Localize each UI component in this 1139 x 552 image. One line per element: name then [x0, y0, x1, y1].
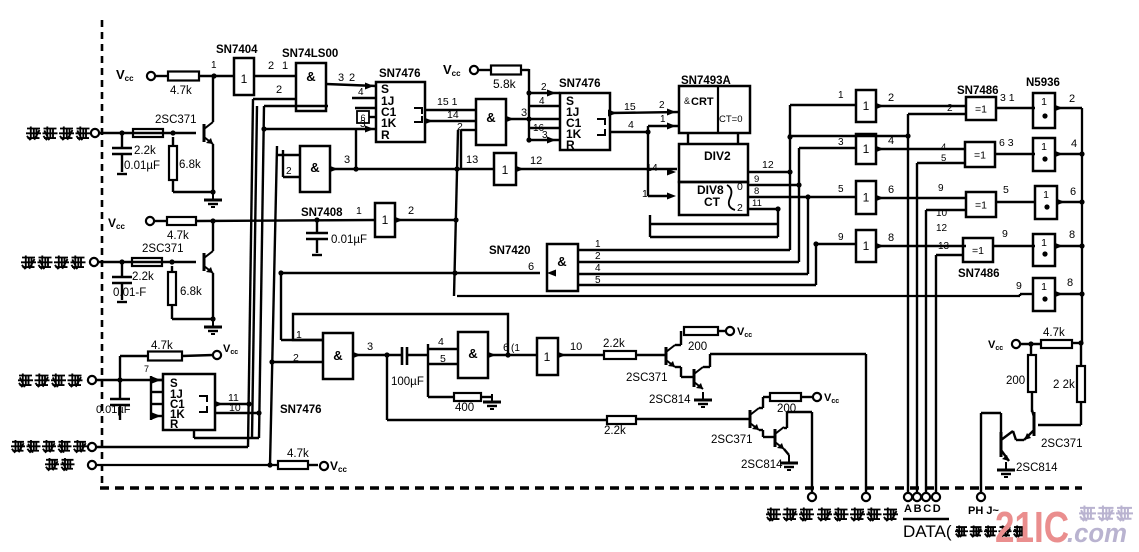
svg-text:21IC: 21IC: [995, 503, 1069, 552]
svg-text:DIV2: DIV2: [704, 149, 731, 163]
svg-text:0.01µF: 0.01µF: [96, 404, 131, 416]
svg-text:8: 8: [1069, 229, 1075, 241]
svg-text:7: 7: [144, 364, 149, 374]
svg-text:9: 9: [754, 174, 759, 185]
svg-text:14: 14: [447, 109, 459, 121]
svg-text:10: 10: [936, 208, 948, 219]
svg-text:10: 10: [229, 402, 241, 414]
svg-text:R: R: [170, 419, 179, 431]
svg-text:1: 1: [1041, 96, 1047, 108]
svg-text:12: 12: [530, 155, 542, 167]
svg-text:2SC371: 2SC371: [626, 372, 668, 384]
svg-text:2: 2: [737, 202, 743, 214]
svg-text:2SC371: 2SC371: [142, 243, 184, 255]
svg-text:9: 9: [938, 183, 944, 194]
svg-text:2: 2: [408, 205, 414, 217]
svg-text:1: 1: [241, 72, 248, 86]
svg-text:2SC814: 2SC814: [649, 394, 691, 406]
svg-text:6.8k: 6.8k: [179, 159, 201, 171]
svg-text:4.7k: 4.7k: [170, 85, 192, 97]
svg-text:N5936: N5936: [1026, 77, 1060, 89]
svg-text:1: 1: [660, 114, 666, 125]
svg-text:2: 2: [947, 103, 953, 114]
svg-text:SN7476: SN7476: [559, 78, 601, 90]
svg-text:&: &: [684, 96, 690, 106]
svg-text:5: 5: [440, 353, 446, 365]
svg-text:1: 1: [1041, 281, 1047, 293]
svg-text:&: &: [557, 254, 566, 269]
svg-text:12: 12: [762, 159, 774, 171]
svg-text:5: 5: [595, 275, 601, 286]
svg-text:4.7k: 4.7k: [287, 448, 309, 460]
svg-text:SN7486: SN7486: [958, 268, 1000, 280]
svg-text:CT: CT: [704, 195, 721, 209]
svg-text:0.01µF: 0.01µF: [124, 160, 160, 172]
svg-text:9: 9: [838, 232, 844, 243]
svg-text:3 1: 3 1: [1000, 92, 1015, 104]
svg-text:SN7420: SN7420: [489, 245, 531, 257]
svg-text:R: R: [381, 128, 390, 142]
svg-text:2SC371: 2SC371: [155, 114, 197, 126]
svg-text:5: 5: [1003, 184, 1009, 196]
svg-text:1: 1: [211, 60, 217, 71]
svg-text:4: 4: [941, 142, 946, 153]
svg-text:100µF: 100µF: [391, 376, 424, 388]
svg-text:DATA(: DATA(: [903, 522, 952, 541]
svg-text:2: 2: [268, 60, 274, 72]
svg-text:2.2k: 2.2k: [604, 425, 626, 437]
svg-text:2SC371: 2SC371: [1041, 438, 1083, 450]
svg-text:2: 2: [595, 251, 601, 262]
svg-text:1: 1: [502, 163, 509, 177]
svg-text:2: 2: [276, 84, 282, 96]
svg-text:3: 3: [344, 154, 350, 166]
svg-text:2: 2: [888, 92, 894, 104]
svg-text:4: 4: [539, 96, 545, 107]
svg-text:=1: =1: [972, 245, 984, 257]
svg-text:4.7k: 4.7k: [1043, 327, 1065, 339]
svg-text:3: 3: [838, 137, 844, 148]
svg-text:1: 1: [544, 350, 551, 364]
svg-text:SN7476: SN7476: [280, 404, 322, 416]
svg-text:9: 9: [1016, 280, 1022, 292]
svg-text:4.7k: 4.7k: [151, 340, 173, 352]
svg-text:4: 4: [438, 336, 444, 348]
svg-text:6: 6: [888, 184, 894, 196]
svg-text:3: 3: [338, 72, 344, 84]
svg-text:0.01µF: 0.01µF: [331, 234, 367, 246]
svg-text:0: 0: [737, 181, 743, 193]
svg-text:2: 2: [293, 352, 299, 364]
svg-text:2: 2: [541, 82, 547, 93]
svg-text:1: 1: [382, 213, 389, 227]
svg-text:2 2k: 2 2k: [1053, 379, 1075, 391]
svg-text:&: &: [306, 69, 315, 84]
svg-text:R: R: [566, 138, 575, 152]
svg-text:6 3: 6 3: [999, 137, 1014, 149]
svg-text:=1: =1: [974, 150, 986, 162]
svg-text:6: 6: [1070, 186, 1076, 198]
svg-text:1: 1: [863, 239, 870, 253]
svg-text:1: 1: [838, 90, 844, 101]
svg-text:4: 4: [595, 263, 601, 274]
svg-text:4.7k: 4.7k: [167, 230, 189, 242]
svg-text:&: &: [486, 110, 495, 125]
svg-text:SN7476: SN7476: [379, 68, 421, 80]
svg-text:2SC371: 2SC371: [711, 434, 753, 446]
svg-text:=1: =1: [975, 104, 987, 116]
svg-text:1: 1: [1043, 189, 1049, 201]
svg-text:(1: (1: [511, 343, 520, 354]
svg-text:B: B: [914, 503, 922, 515]
svg-text:15: 15: [624, 101, 636, 113]
svg-text:8: 8: [888, 232, 894, 244]
svg-text:2: 2: [286, 166, 292, 177]
svg-text:2: 2: [659, 100, 665, 111]
svg-text:10: 10: [570, 341, 582, 353]
svg-text:0.01-F: 0.01-F: [113, 287, 146, 299]
svg-text:1: 1: [863, 99, 870, 113]
svg-text:1: 1: [1041, 237, 1047, 249]
svg-text:.com: .com: [1067, 518, 1127, 548]
svg-text:3: 3: [542, 130, 548, 141]
svg-text:&: &: [333, 348, 342, 363]
svg-text:SN7408: SN7408: [301, 207, 343, 219]
svg-text:1: 1: [863, 191, 870, 205]
svg-text:1: 1: [356, 205, 362, 217]
svg-text:4: 4: [628, 119, 634, 131]
svg-text:200: 200: [688, 341, 707, 353]
svg-text:1: 1: [642, 188, 648, 200]
svg-text:1: 1: [282, 60, 288, 72]
svg-text:2: 2: [349, 72, 355, 84]
svg-text:6.8k: 6.8k: [180, 286, 202, 298]
svg-text:400: 400: [455, 402, 474, 414]
svg-text:2.2k: 2.2k: [132, 271, 154, 283]
svg-text:SN7486: SN7486: [957, 85, 999, 97]
svg-text:&: &: [468, 346, 477, 361]
svg-text:6: 6: [528, 261, 534, 273]
svg-text:2SC814: 2SC814: [1016, 462, 1058, 474]
svg-text:A: A: [904, 503, 912, 515]
svg-text:2.2k: 2.2k: [134, 145, 156, 157]
svg-text:6: 6: [503, 342, 509, 354]
svg-text:CRT: CRT: [691, 96, 714, 108]
svg-text:1: 1: [1041, 141, 1047, 153]
svg-text:9: 9: [1002, 228, 1008, 240]
svg-text:CT=0: CT=0: [719, 114, 743, 125]
svg-text:5.8k: 5.8k: [493, 77, 517, 91]
svg-text:=1: =1: [975, 200, 987, 212]
svg-text:8: 8: [1067, 277, 1073, 289]
svg-text:12: 12: [936, 223, 948, 234]
svg-text:&: &: [310, 160, 319, 175]
svg-text:C: C: [923, 503, 931, 515]
svg-text:13: 13: [938, 241, 950, 252]
svg-text:11: 11: [752, 198, 762, 209]
svg-text:D: D: [933, 503, 941, 515]
svg-text:4: 4: [358, 87, 364, 98]
svg-text:2.2k: 2.2k: [603, 338, 625, 350]
svg-text:13: 13: [466, 154, 478, 166]
svg-text:15 1: 15 1: [437, 96, 458, 108]
svg-text:200: 200: [1006, 375, 1025, 387]
svg-text:1: 1: [595, 239, 601, 250]
svg-text:4: 4: [1071, 138, 1077, 150]
svg-text:3: 3: [521, 107, 527, 119]
svg-text:SN7404: SN7404: [216, 44, 258, 56]
svg-text:2SC814: 2SC814: [741, 459, 783, 471]
svg-text:1: 1: [863, 142, 870, 156]
svg-text:3: 3: [367, 341, 373, 353]
svg-text:8: 8: [754, 186, 759, 197]
svg-text:5: 5: [838, 184, 844, 195]
svg-text:5: 5: [941, 153, 946, 164]
svg-text:SN74LS00: SN74LS00: [282, 48, 338, 60]
svg-text:2: 2: [1069, 93, 1075, 105]
